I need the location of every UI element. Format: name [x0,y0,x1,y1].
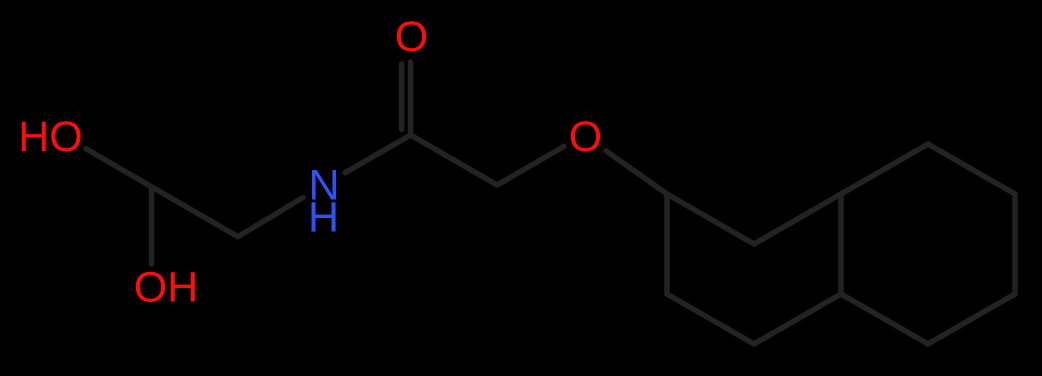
bond C(=O)-CH2 [411,135,498,185]
bond O(ether)-ring A [606,151,667,194]
ring1 bond A-B [667,194,754,244]
ring1 bond D-E [754,294,841,344]
svg-text:O: O [395,13,428,61]
ring1 bond C-D vertical [838,194,844,294]
bond O(HO)-C1 [86,149,152,187]
ring2 bond J-D [841,294,928,344]
bond C=O second line [399,64,405,130]
ring2 bond H-I vertical [1012,194,1018,294]
ring2 bond C-G [841,144,928,194]
svg-text:OH: OH [134,264,199,312]
bond C1-C2 [152,187,239,237]
ring1 bond E-F [667,294,754,344]
ring2 bond G-H [928,144,1015,194]
bond C=O main line [408,62,414,135]
bond N-C(=O) [345,135,411,173]
ring1 bond B-C [754,194,841,244]
ring2 bond I-J [928,294,1015,344]
bond C1-O(OH) vertical [149,187,155,264]
svg-text:H: H [308,194,339,242]
svg-text:O: O [569,113,602,161]
bond CH2-O(ether) [497,146,564,185]
ring1 bond F-A vertical [664,194,670,294]
bond C2-N [238,198,303,237]
svg-text:HO: HO [18,113,83,161]
